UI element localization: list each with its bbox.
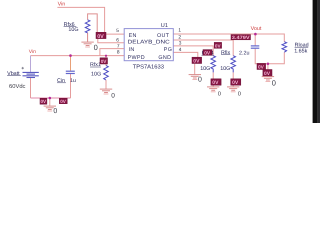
bias box 0V over Rfx4 label <box>203 50 212 57</box>
bias box 3.479V Vout <box>231 35 251 40</box>
svg-text:OUT: OUT <box>157 33 170 39</box>
wire IN pin 7 jog <box>100 49 124 56</box>
resistor Rfx4 glyph <box>211 56 216 73</box>
wire Cin top lead <box>70 56 72 71</box>
svg-text:TPS7A1633: TPS7A1633 <box>133 63 164 70</box>
ground 0 left bottom <box>44 106 56 111</box>
op-amp U1 regulator box TPS7A1633 <box>124 29 173 61</box>
svg-text:0: 0 <box>218 91 221 98</box>
svg-text:0V: 0V <box>97 34 104 40</box>
svg-text:10G: 10G <box>200 66 210 72</box>
wire ground6 stub <box>267 64 269 77</box>
wire Rfix ground stub <box>232 85 234 87</box>
resistor Rfx6 glyph <box>85 20 90 33</box>
svg-text:4: 4 <box>179 47 182 53</box>
svg-text:Rfx1: Rfx1 <box>90 62 101 68</box>
svg-text:Vout: Vout <box>251 26 262 32</box>
wire ground2 stub <box>49 98 51 106</box>
svg-text:7: 7 <box>117 43 120 49</box>
svg-text:Cin: Cin <box>57 78 65 84</box>
wire battery bottom lead <box>30 78 32 98</box>
svg-text:0: 0 <box>238 91 241 98</box>
svg-text:Rfix: Rfix <box>221 50 230 56</box>
wire ground rail bottom left <box>31 97 71 99</box>
capacitor C2 glyph <box>251 46 259 48</box>
wire Vin net horizontal (to IN / PWPD) <box>31 55 125 57</box>
svg-text:0V: 0V <box>41 99 48 104</box>
capacitor Cin glyph <box>66 71 75 73</box>
svg-text:DELAYB_DNC: DELAYB_DNC <box>128 40 170 46</box>
svg-text:0: 0 <box>272 78 276 87</box>
ground 0 under Rfx6 <box>81 42 93 47</box>
svg-text:8: 8 <box>117 50 120 56</box>
svg-text:Vin: Vin <box>29 49 36 55</box>
svg-text:Rload: Rload <box>295 42 309 48</box>
battery plus sign <box>22 67 25 69</box>
wire Rfx4 ground stub <box>212 85 214 87</box>
svg-text:2.2u: 2.2u <box>239 50 250 56</box>
junction Rfx1 tap <box>105 55 107 57</box>
bias box 0V EN/DELAY <box>96 32 106 40</box>
bias box 0V battery ground right <box>59 98 67 104</box>
wire Cin bottom lead <box>70 74 72 98</box>
junction ground rail left <box>49 97 52 100</box>
svg-text:6: 6 <box>116 38 119 44</box>
svg-text:10G: 10G <box>91 71 101 77</box>
wire Rfx6 bottom to ground <box>87 33 89 42</box>
wire Rfx6 top to DELAY node <box>88 14 98 34</box>
svg-text:0: 0 <box>198 77 202 84</box>
ground 0 under Rfx4 <box>207 87 219 92</box>
svg-text:0V: 0V <box>60 99 67 104</box>
svg-text:1: 1 <box>178 27 181 33</box>
wire Rfx1 bottom to ground3 <box>105 80 107 89</box>
wire pin 3 PG to Rfx4 <box>173 46 213 56</box>
wire Vin top rail <box>57 7 104 33</box>
resistor Rfx1 glyph <box>104 65 109 80</box>
svg-text:0: 0 <box>94 43 98 52</box>
wire OUT pin 1 to Rload <box>173 34 284 42</box>
wire battery top lead <box>30 56 32 73</box>
ground 0 output <box>262 77 274 82</box>
bias box 0V PWPD/Rfx1 <box>100 58 108 64</box>
wire C2 bottom / output ground rail <box>255 49 284 64</box>
wire C2 top lead <box>254 34 256 45</box>
svg-text:GND: GND <box>158 55 171 61</box>
battery Vbatt glyph <box>23 72 39 77</box>
svg-text:0: 0 <box>111 93 115 100</box>
svg-text:EN: EN <box>129 33 137 39</box>
wire DELAY drop to pin 6 <box>98 39 124 43</box>
svg-text:U1: U1 <box>161 23 168 29</box>
wire pin 2 B_DNC to Rfix <box>173 40 233 56</box>
wire Rfx4 bottom lead <box>212 72 214 79</box>
svg-text:IN: IN <box>129 47 135 53</box>
svg-text:0V: 0V <box>101 59 108 64</box>
svg-text:0: 0 <box>53 108 57 115</box>
resistor Rload glyph <box>282 42 287 53</box>
svg-text:3: 3 <box>179 41 182 47</box>
svg-text:3.479V: 3.479V <box>232 35 251 40</box>
bias box 0V GND pin 4 <box>192 57 202 64</box>
wire ground1 stub <box>194 64 196 75</box>
bias box 0V PG top <box>214 42 221 48</box>
svg-text:10G: 10G <box>220 66 230 72</box>
svg-text:10G: 10G <box>68 27 78 33</box>
svg-text:1u: 1u <box>70 78 76 84</box>
svg-text:0V: 0V <box>204 50 211 56</box>
wire EN pin 5 <box>105 33 125 35</box>
ground 0 pin4 GND <box>189 75 201 80</box>
svg-text:PG: PG <box>164 47 172 53</box>
bias box 0V battery ground left <box>40 98 47 104</box>
svg-text:60Vdc: 60Vdc <box>9 83 26 90</box>
svg-text:0V: 0V <box>264 71 271 77</box>
svg-text:0V: 0V <box>212 80 219 86</box>
svg-text:0V: 0V <box>193 59 200 65</box>
svg-text:Vbatt: Vbatt <box>7 71 20 77</box>
svg-text:Vin: Vin <box>58 2 66 8</box>
svg-text:PWPD: PWPD <box>128 55 145 61</box>
wire pin 4 GND <box>173 52 198 58</box>
right dark edge bar <box>313 0 318 123</box>
bias box 0V output ground <box>263 70 272 77</box>
bias box 0V under Rfx4 <box>211 79 221 86</box>
bias box 0V under Rfix <box>231 79 241 86</box>
ground 0 under Rfix <box>227 87 239 92</box>
svg-text:2: 2 <box>178 34 181 40</box>
svg-text:1.65k: 1.65k <box>294 49 307 55</box>
junction Cin/Vin <box>69 54 72 57</box>
junction output ground <box>267 63 270 66</box>
bias box 0V output rail <box>257 63 266 70</box>
svg-text:0V: 0V <box>215 43 222 48</box>
wire Rfix bottom lead <box>232 72 234 79</box>
wire Rfx1 top lead <box>105 56 107 66</box>
resistor Rfix glyph <box>231 56 236 73</box>
ground 0 under Rfx1 <box>100 89 112 94</box>
svg-text:0V: 0V <box>232 80 239 86</box>
svg-text:5: 5 <box>116 28 119 34</box>
junction Vout/C2 <box>254 33 257 36</box>
